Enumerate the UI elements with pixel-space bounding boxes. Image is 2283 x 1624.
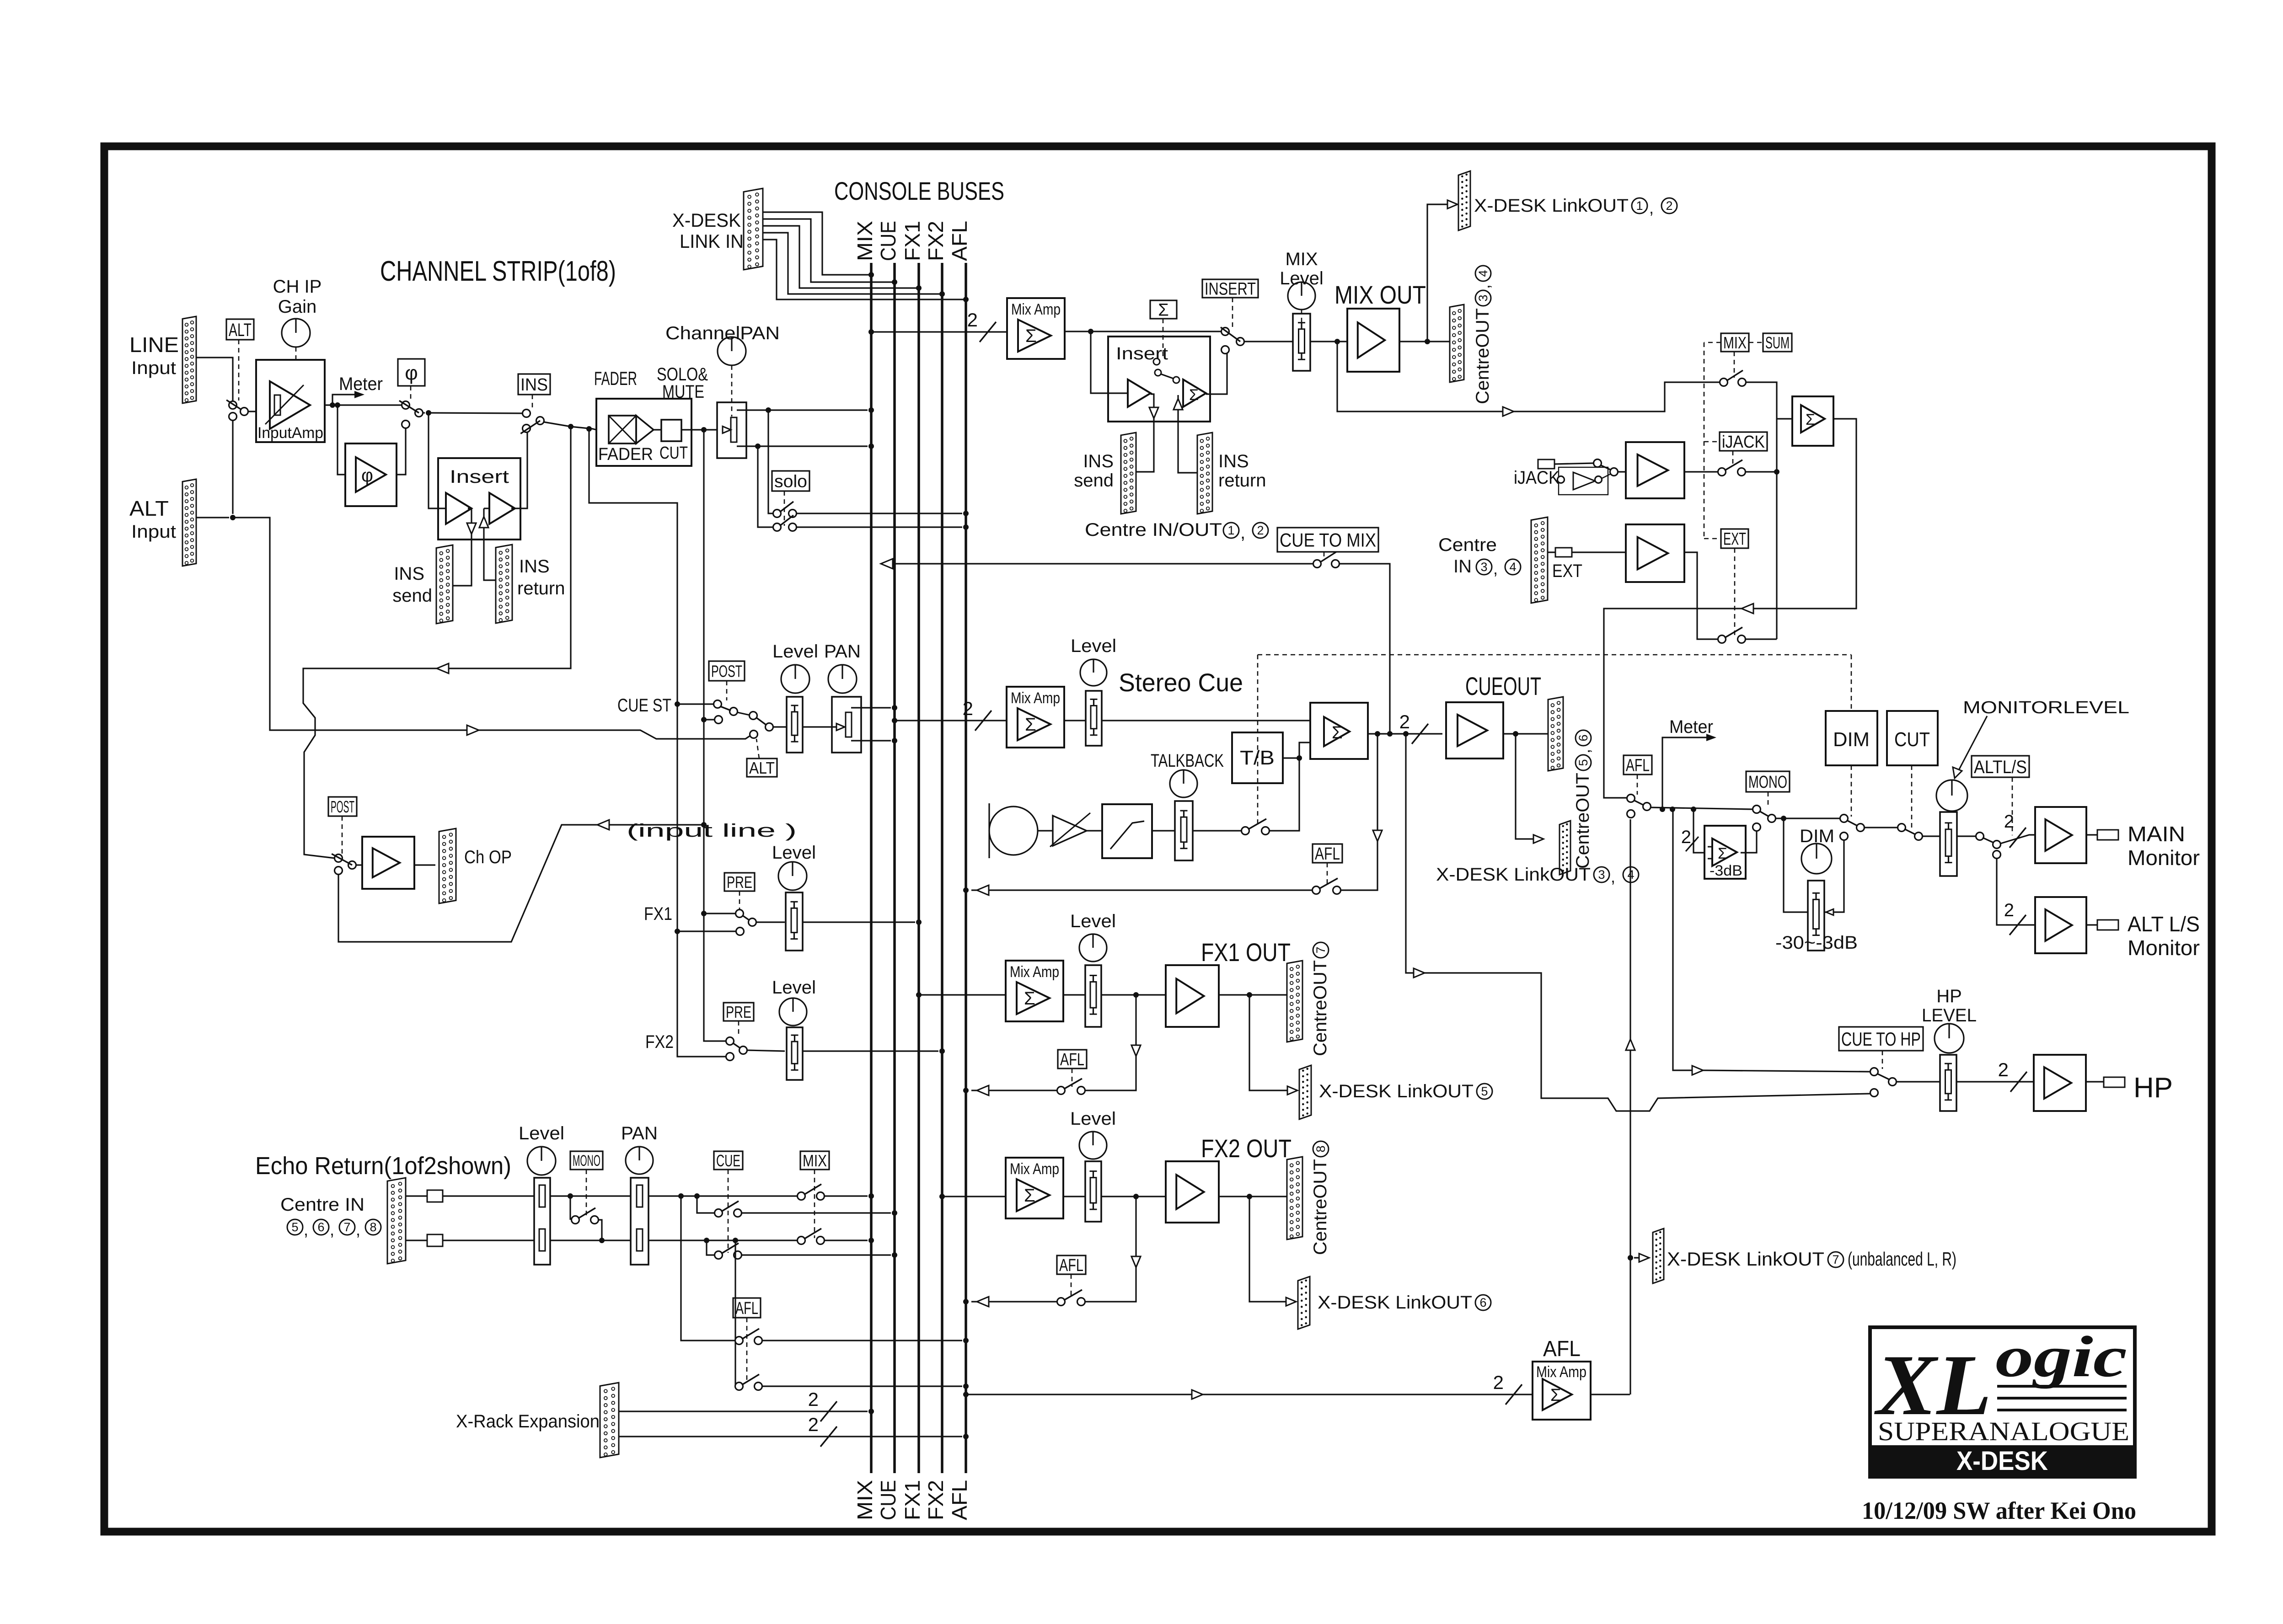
svg-text:FX2 OUT: FX2 OUT [1201,1134,1292,1163]
wire MIX bus to mixamp [868,309,1007,342]
dashed mono echo [586,1170,587,1216]
box MIX OUT amp [1347,309,1399,372]
wire master INS return [1174,395,1197,473]
label PRE boxed FX1 [724,873,755,892]
bus AFL vertical [965,263,967,1473]
dashed cue to hp [1882,1051,1883,1069]
svg-text:solo: solo [774,472,807,491]
label MIX boxed echo [800,1151,829,1170]
wire mono sum tap [1681,809,1704,853]
wire cue sigma out [1368,711,1442,744]
wire echo mix R to bus [824,1238,874,1243]
dashed ijack label [1704,442,1733,467]
fader HP LEVEL [1940,1055,1956,1111]
box limiter [1102,804,1152,858]
wire INS switch to fader [544,422,596,432]
wire centrein to ext amp [1548,551,1626,553]
svg-text:Σ: Σ [1189,386,1199,404]
wire fx1 fader to amp [1101,992,1166,998]
dashed INS to switch [532,395,533,410]
svg-text:iJACK: iJACK [1722,433,1765,452]
svg-text:INSERT: INSERT [1205,280,1256,299]
box MAIN monitor amp [2035,807,2086,863]
svg-text:φ: φ [361,465,373,486]
title CHANNEL STRIP [380,256,616,287]
wire pan L out [737,407,874,413]
svg-text:Input: Input [131,522,176,542]
wire cue fader to sigma [1102,720,1310,721]
wire echo cue L to bus [741,1210,897,1216]
svg-text:Level: Level [772,641,818,662]
wire LINK IN to FX2 bus [763,233,945,297]
wire fader out [681,427,717,433]
connector INS return ch [496,545,512,623]
switch FX1 pre/post [736,910,756,935]
wire monitorlevel pointer [1953,716,1987,778]
box EXT amp [1626,524,1684,582]
label ALTLS boxed [1972,756,2029,777]
wire echo afl L to bus [762,1338,969,1343]
dashed phi to switch [410,386,412,401]
box HP amp [2034,1055,2086,1111]
label ALT boxed [226,319,254,340]
svg-text:CUE TO HP: CUE TO HP [1841,1028,1921,1050]
box Insert master [1108,337,1210,422]
dashed MIX-SUM [1749,342,1763,343]
svg-text:AFL: AFL [1626,756,1650,775]
svg-text:PRE: PRE [727,873,752,892]
svg-text:PAN: PAN [824,641,861,662]
switch fx2 AFL [1057,1290,1085,1306]
vtext CentreOUT7 [1310,942,1330,1056]
switch EXT select [1718,627,1746,643]
svg-text:Mix Amp: Mix Amp [1010,963,1059,981]
svg-text:IN: IN [1453,556,1472,577]
box DIM [1826,711,1877,765]
dashed mix level [1301,310,1302,325]
svg-text:X-DESK LinkOUT: X-DESK LinkOUT [1319,1081,1474,1101]
wire fader to MIXOUT amp [1310,339,1347,344]
switch ALTLS [1976,833,2001,859]
svg-text:CUE ST: CUE ST [617,695,671,716]
label Level fx1out [1070,911,1116,931]
label EXT small [1552,561,1582,581]
svg-text:5: 5 [291,1220,298,1234]
knob MONITORLEVEL [1936,780,1967,811]
connector INS send ch [436,545,453,624]
svg-text:2: 2 [808,1414,819,1435]
switch echo MIX R [798,1229,825,1245]
box FX1 OUT amp [1166,965,1219,1027]
bus FX1 vertical [917,263,920,1473]
svg-text:Level: Level [1071,636,1116,656]
svg-text:X-DESK LinkOUT: X-DESK LinkOUT [1318,1293,1472,1313]
label CUE ST [617,695,671,716]
svg-text:-30~-3dB: -30~-3dB [1775,933,1858,953]
dashed INSERT [1232,298,1233,328]
svg-text:2: 2 [808,1389,819,1410]
switch cue AFL [1313,878,1341,894]
knob FX2out Level [1079,1132,1107,1159]
wire CUEST sw to level [773,726,787,727]
label CUE boxed echo [714,1151,743,1170]
svg-text:Level: Level [772,978,816,998]
svg-text:AFL: AFL [1059,1256,1083,1275]
svg-text:CentreOUT: CentreOUT [1310,960,1330,1056]
svg-text:PAN: PAN [621,1123,658,1143]
switch echo CUE R [715,1243,742,1259]
bus FX2 vertical [941,263,943,1473]
svg-text:CUE: CUE [876,221,900,261]
svg-text:Mix Amp: Mix Amp [1010,1160,1059,1178]
connector INS send master [1121,433,1136,514]
svg-text:Monitor: Monitor [2128,846,2200,870]
box Mix Amp MIX [1007,298,1065,359]
resistor echo R [427,1234,443,1246]
label iJACK boxed [1720,432,1767,452]
wire cueout to conn [1503,731,1548,737]
wire pre vertical [589,429,726,1057]
dashed mix echo [814,1170,815,1238]
box CUEOUT amp [1446,702,1503,759]
label AFL boxed monitor [1624,755,1652,775]
fader CUE Level [1086,691,1102,746]
svg-text:Stereo Cue: Stereo Cue [1119,668,1243,697]
label ALT LS Monitor [2128,912,2200,960]
svg-text:FX1 OUT: FX1 OUT [1201,938,1291,967]
fader TALKBACK [1175,801,1193,860]
wire hp amp out [2086,1081,2104,1082]
knob CUEST PAN [828,665,857,693]
svg-text:8: 8 [1314,1145,1328,1152]
svg-text:X-DESK LinkOUT: X-DESK LinkOUT [1667,1248,1824,1270]
svg-text:Centre IN/OUT: Centre IN/OUT [1085,520,1222,540]
label MAIN Monitor [2128,822,2200,870]
connector ALT Input [182,479,196,566]
switch echo AFL R [735,1374,762,1390]
svg-text:2: 2 [1399,711,1410,732]
label Level CUEST [772,641,818,662]
svg-text:AFL: AFL [1060,1050,1084,1069]
wire FX1 level to bus [803,919,922,925]
label POST boxed [328,797,357,816]
connector CentreOUT8 [1287,1157,1302,1239]
label HP [2133,1072,2173,1104]
label Sigma boxed [1150,300,1177,320]
label PRE boxed FX2 [723,1003,754,1021]
svg-text:CUE: CUE [876,1480,900,1520]
wire SUM out down [1604,419,1856,798]
svg-text:Centre IN: Centre IN [280,1195,364,1215]
svg-text:φ: φ [405,362,418,384]
connector CentreOUT7 [1287,961,1302,1042]
svg-text:5: 5 [1576,759,1590,766]
svg-text:CentreOUT: CentreOUT [1473,308,1493,404]
wire ijack amp out [1684,471,1718,472]
wire Meter branch [332,391,364,405]
label X-DESK LinkOUT7 [1667,1248,1956,1270]
wire ijack alt [1602,474,1610,478]
bus label top CUE [876,221,900,261]
wire LINK IN to MIX bus [763,212,874,278]
wire CUE TO MIX [881,559,1390,734]
svg-text:PRE: PRE [726,1003,751,1021]
svg-text:X-DESK: X-DESK [672,209,741,231]
svg-text:FX2: FX2 [645,1032,674,1052]
bus label top FX2 [924,221,948,261]
dashed TB gang [1258,655,1851,825]
bus label bottom MIX [853,1480,877,1520]
label ALT boxed CUEST [747,759,777,777]
switch echo MONO [570,1196,602,1240]
dashed cut [1911,765,1913,830]
label MONO boxed [1746,771,1790,792]
wire INS send path [453,508,476,586]
svg-text:Σ: Σ [1025,715,1036,735]
svg-text:4: 4 [1476,270,1490,277]
wire ext to sum node [1745,638,1777,640]
label INS return master [1218,451,1266,491]
svg-text:1: 1 [1227,524,1234,537]
switch iJACK input [1594,459,1618,476]
svg-text:send: send [1074,470,1114,491]
label INS send master [1074,451,1114,491]
wire echo afl R feed [734,1240,736,1386]
connector LINE Input [182,316,196,403]
svg-text:AFL: AFL [1543,1337,1581,1361]
switch CUEST pre/post [714,700,738,724]
wire insert out up [511,432,527,508]
svg-text:return: return [517,578,565,598]
fader FX1out [1085,965,1101,1027]
svg-text:Ch OP: Ch OP [464,847,512,867]
svg-text:,: , [1575,749,1593,753]
label AFL boxed fx2 [1057,1255,1086,1275]
label Centre IN34 [1438,535,1521,578]
label solo boxed [772,471,809,491]
svg-text:ALT L/S: ALT L/S [2128,912,2200,936]
switch MONO [1753,806,1776,831]
svg-text:CentreOUT: CentreOUT [1573,773,1593,869]
wire pre to CUEST [675,701,714,707]
switch solo R [773,515,797,531]
svg-text:MIX: MIX [853,1480,877,1520]
svg-text:ALT: ALT [749,759,775,777]
wire post vertical [704,430,726,1041]
dashed mono [1768,792,1769,806]
svg-text:ALT: ALT [229,320,252,340]
wire pre-fader return to ChOP [303,427,571,858]
wire ALT amp out [2086,924,2097,925]
jack HP [2104,1077,2125,1087]
label Centre IN/OUT 1 2 [1085,520,1268,543]
svg-text:Meter: Meter [1669,717,1713,737]
svg-text:2: 2 [1493,1372,1504,1393]
svg-text:AFL: AFL [735,1299,758,1318]
dashed gang left [1704,342,1721,539]
vtext CentreOUT56 [1573,730,1593,869]
label iJACK input [1514,468,1560,488]
wire echo cue R feed [707,1240,715,1255]
svg-text:FX2: FX2 [924,221,948,261]
svg-text:MIX: MIX [803,1151,827,1170]
svg-text:MONITORLEVEL: MONITORLEVEL [1963,698,2129,717]
svg-text:,: , [1240,523,1245,543]
svg-text:SUM: SUM [1765,333,1790,352]
svg-text:2: 2 [1681,827,1691,847]
label Level FX2 [772,978,816,998]
wire insert sw to fader [1244,341,1293,342]
svg-text:AFL: AFL [948,1480,971,1520]
label MIX Level [1280,249,1324,288]
wire ChOP amp out [356,864,435,865]
title Echo Return [255,1152,511,1180]
wire echo R to pan [550,1238,631,1243]
svg-text:MONO: MONO [1748,773,1787,792]
svg-text:X-DESK LinkOUT: X-DESK LinkOUT [1436,865,1591,885]
label X-DESK LINK IN [672,209,744,252]
label AFL master [1543,1337,1581,1361]
dashed sigma to insert [1163,319,1164,359]
svg-text:FADER: FADER [594,368,637,389]
wire echo L resistor [406,1195,534,1197]
fader symbol [609,416,654,443]
wire post to ChOP [338,820,707,942]
svg-text:CUT: CUT [659,443,688,463]
wire tb box stub [1283,757,1299,759]
wire echo pan R out [648,1238,798,1243]
connector X-DESK LINK IN [744,188,763,270]
svg-text:MAIN: MAIN [2128,822,2185,846]
label MIX boxed sum [1721,333,1749,352]
label EXT boxed [1721,529,1748,549]
label Meter [339,374,383,394]
switch echo CUE L [715,1201,742,1217]
wire MIXOUT monitor tap [1337,342,1720,416]
switch MIX monitor [1720,370,1746,386]
knob HP LEVEL [1935,1024,1964,1053]
svg-text:Σ: Σ [1550,1386,1561,1405]
box Insert channel [438,458,520,540]
label X-DESK LinkOUT6 [1318,1293,1491,1313]
wire echo cue R to bus [741,1252,897,1258]
jack MAIN [2097,830,2118,840]
wire amp to limiter [1087,830,1102,831]
connector INS return master [1197,433,1212,514]
knob echo PAN [626,1147,653,1174]
wire monitor to HP [1673,811,1870,1075]
svg-text:Mix Amp: Mix Amp [1536,1363,1586,1381]
svg-text:,: , [304,1220,308,1239]
label HP LEVEL [1922,986,1977,1026]
svg-text:Meter: Meter [339,374,383,394]
svg-text:3: 3 [1476,294,1490,301]
svg-text:FADER: FADER [598,445,653,464]
wire post to CUEST [701,717,715,722]
svg-text:Σ: Σ [1806,411,1815,428]
svg-text:CentreOUT: CentreOUT [1310,1159,1330,1255]
svg-text:ALTL/S: ALTL/S [1974,757,2027,777]
wire xrack 1 [619,1389,874,1421]
svg-text:1: 1 [1636,199,1643,213]
svg-text:X-Rack Expansion: X-Rack Expansion [456,1411,600,1432]
svg-text:2: 2 [2004,900,2014,920]
wire fx2 mixamp to fader [1063,1196,1085,1197]
label POST boxed CUEST [709,661,745,681]
switch CUEST alt [750,712,773,738]
wire fx1 amp out [1219,992,1287,998]
box Mix Amp CUE [1007,687,1064,748]
switch ChOP post/pre [332,854,356,875]
label PAN echo [621,1123,658,1143]
label PAN CUEST [824,641,861,662]
wire CUE bus to cue mixamp [892,698,1007,731]
svg-text:CUT: CUT [1894,728,1930,751]
wire pre to FX1 [675,929,736,934]
svg-text:InputAmp: InputAmp [257,424,323,442]
fader FX2 Level [787,1027,803,1080]
label FX2 OUT [1201,1134,1292,1163]
wire fx2 afl tap [1085,1197,1141,1302]
wire fx2 fader to amp [1101,1194,1166,1199]
label X-DESK LinkOUT5 [1319,1081,1492,1101]
mic talkback [989,803,1038,858]
wire MAIN amp out [2086,834,2097,835]
svg-text:Input: Input [131,358,176,378]
label FX2 [645,1032,674,1052]
label SUM boxed [1763,333,1792,352]
svg-text:2: 2 [1257,524,1264,537]
svg-text:,: , [356,1220,360,1239]
label AFL boxed echo [733,1298,761,1318]
svg-text:DIM: DIM [1800,826,1834,846]
svg-text:LINE: LINE [129,333,179,357]
wire MIXOUT up to linkout [1427,200,1458,342]
switch iJACK select [1718,460,1746,476]
dashed solo [784,491,785,526]
wire ijack sw to amp [1618,471,1626,472]
svg-text:,: , [1493,559,1498,578]
wire echo pan L out [648,1193,798,1199]
svg-text:DIM: DIM [1833,728,1870,751]
dashed PRE FX2 [738,1021,740,1037]
svg-text:TALKBACK: TALKBACK [1151,751,1224,771]
switch DIM bypass [1840,815,1865,840]
svg-text:7: 7 [343,1220,350,1234]
bus MIX vertical [870,263,873,1473]
svg-text:ChannelPAN: ChannelPAN [665,323,780,343]
svg-text:6: 6 [1576,734,1590,741]
wire FX1 bus to mixamp [916,992,1006,998]
wire pan R out [737,443,874,449]
box ALT monitor amp [2035,897,2086,953]
label AFL boxed fx1 [1058,1050,1087,1069]
label CUE TO MIX boxed [1277,528,1378,552]
label FADER above [594,368,637,389]
label INS return ch [517,556,565,598]
wire linkout5 branch [1249,995,1297,1095]
svg-text:INS: INS [394,564,424,584]
wire linkout7 branch [1628,1254,1649,1262]
knob FX2 Level [779,998,807,1026]
jack ALT [2097,920,2118,930]
label CUEOUT [1465,672,1541,700]
wire insert feed down [429,413,446,508]
svg-text:Σ: Σ [1718,845,1727,862]
label CUE TO HP boxed [1839,1027,1923,1051]
label X-DESK LinkOUT12 [1474,196,1677,217]
jack iJACK input [1538,459,1554,469]
